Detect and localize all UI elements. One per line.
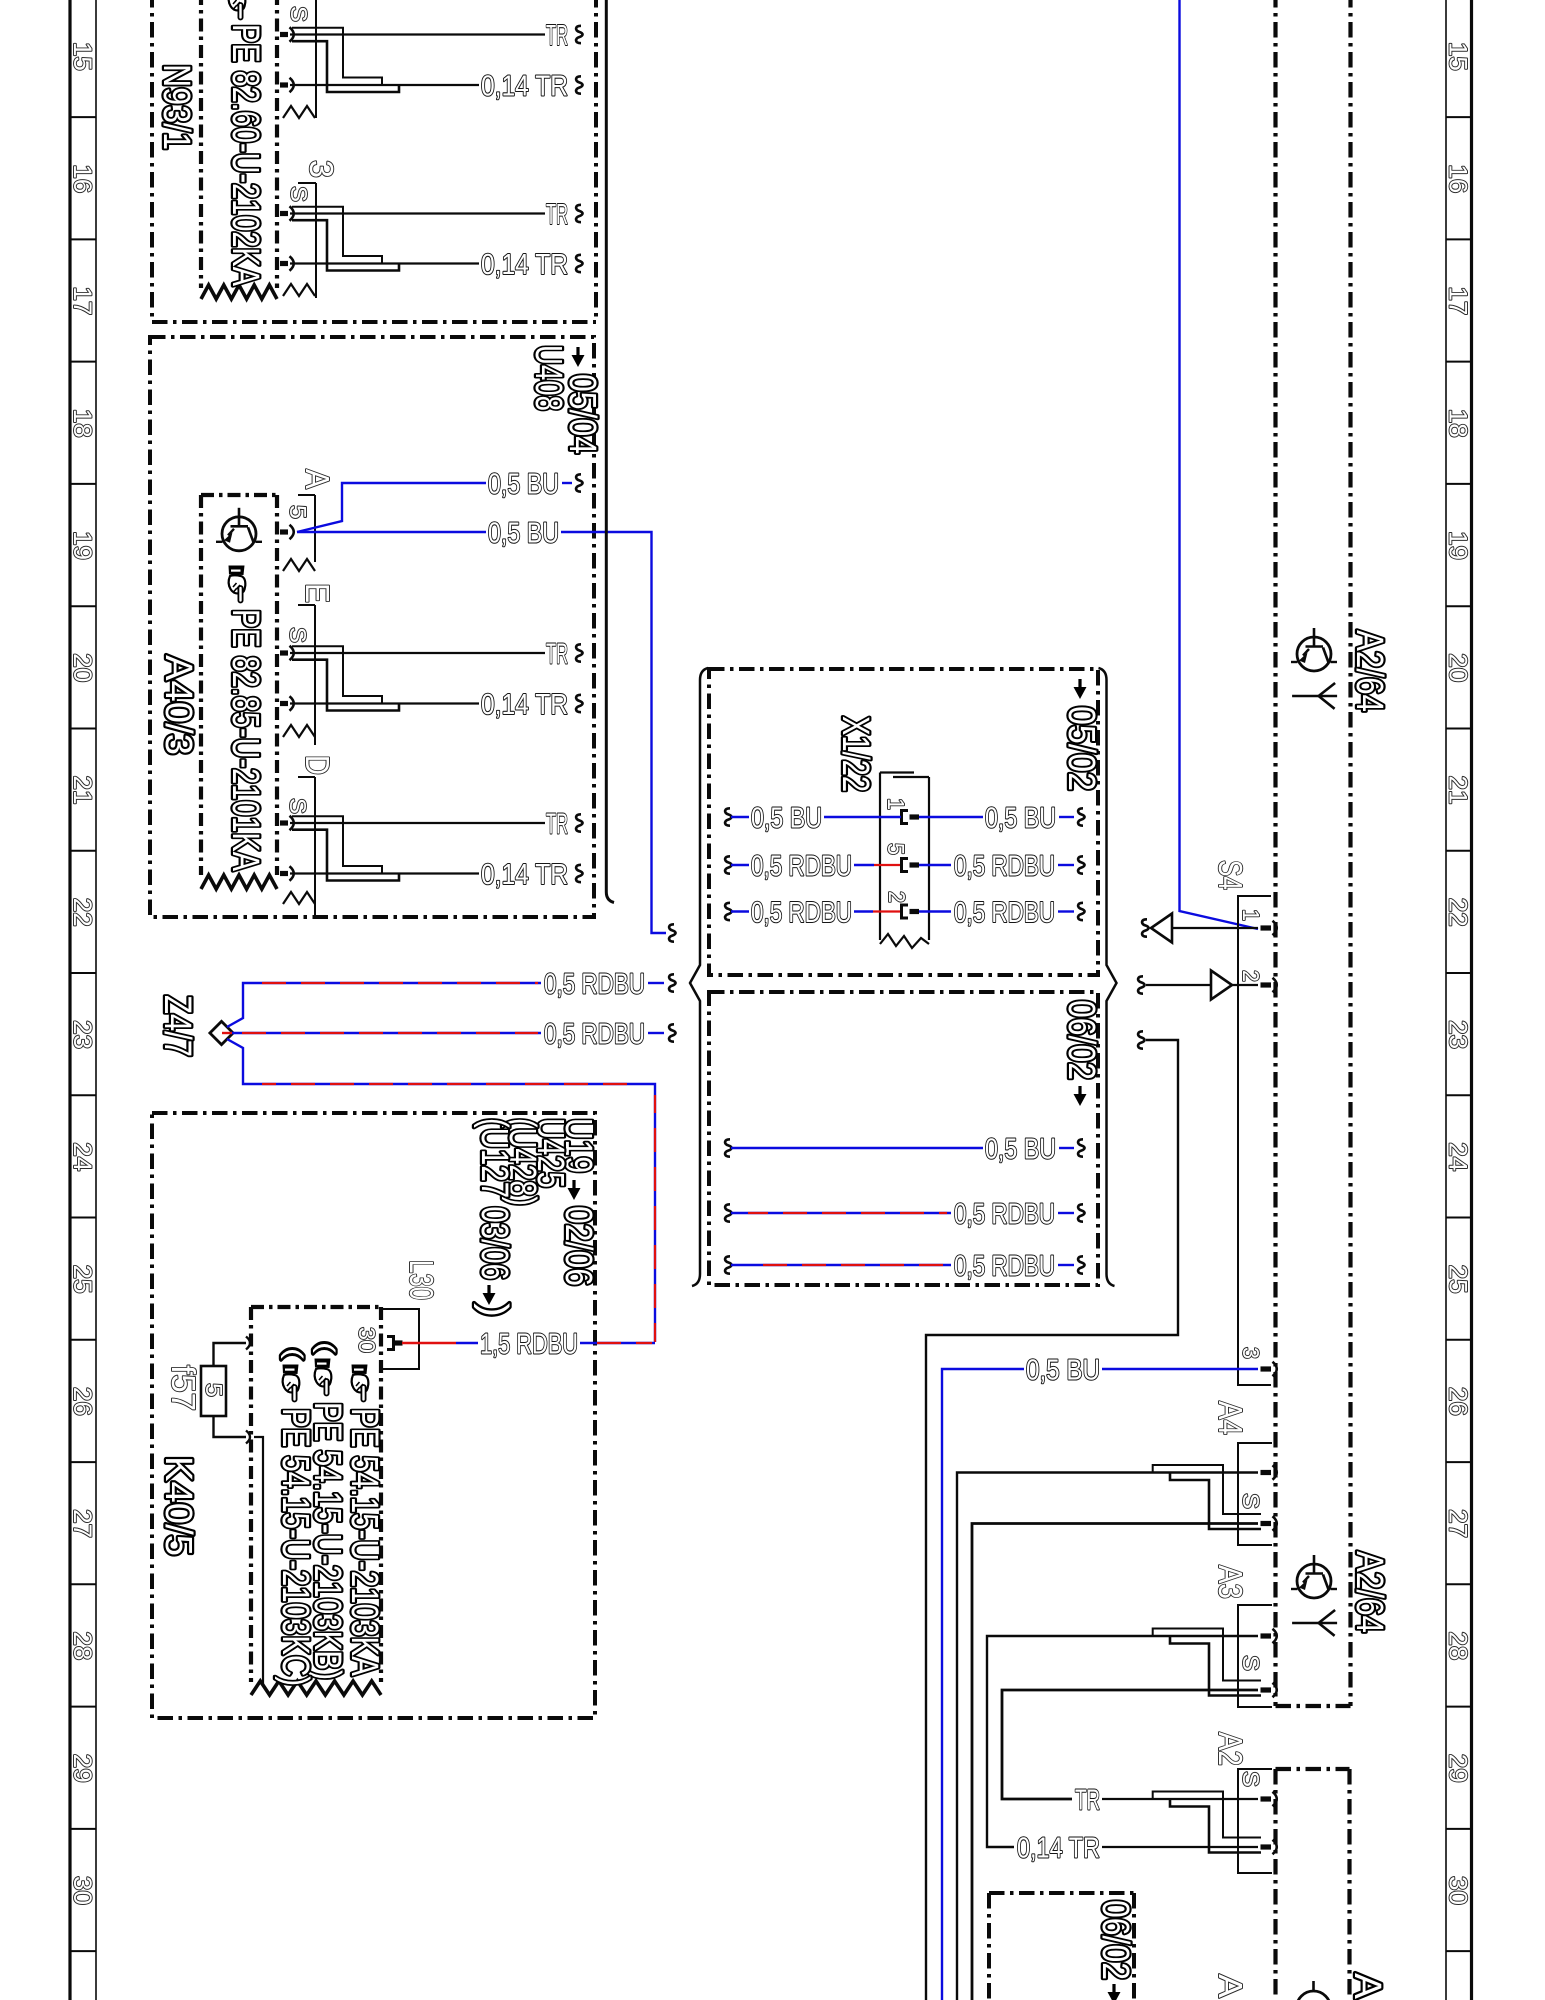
contact at box edge top — [246, 1337, 250, 1350]
contact pin E2 — [280, 696, 294, 710]
connector bracket A2 — [1238, 1769, 1272, 1873]
wire branch down from Z4/7 — [227, 1039, 655, 1342]
svg-text:23: 23 — [68, 1020, 96, 1049]
svg-text:0,5 BU: 0,5 BU — [985, 803, 1056, 835]
wire 0,5 BU left row1 — [731, 816, 749, 818]
wire 1,5 RDBU blue segment — [456, 1342, 478, 1344]
connector bracket line N93/1 group1 — [315, 0, 317, 118]
clock symbol A2/64 upper — [1291, 628, 1337, 671]
connector bracket S4 — [1238, 896, 1271, 1385]
svg-text:20: 20 — [1444, 653, 1472, 682]
wire end hook 0,14 TR E — [576, 695, 582, 712]
hook start row3 06/02 — [725, 1256, 731, 1273]
page ref arrow U127 — [483, 1285, 496, 1305]
wire end hook 0,14 TR g1 — [576, 76, 582, 93]
contact pin A40/3 pin A5 — [280, 525, 294, 539]
svg-text:06/02: 06/02 — [1094, 1900, 1136, 1980]
pin contact A3-1 — [1261, 1629, 1277, 1643]
pin contact 2 X1/22 — [902, 905, 920, 918]
svg-text:0,14 TR: 0,14 TR — [1017, 1833, 1100, 1865]
svg-text:(: ( — [312, 1342, 339, 1353]
tear under connector E pins — [283, 725, 315, 737]
svg-text:TR: TR — [546, 809, 568, 841]
left border ruler column — [68, 0, 71, 2000]
pin contact A4-1 — [1261, 1465, 1277, 1479]
wire 0,5 RDBU 06/02 row2 — [731, 1212, 951, 1214]
wire 0,5 BU left of label and down — [942, 1369, 1024, 2000]
pin contact 5 X1/22 — [902, 859, 920, 872]
contact at box edge bottom — [246, 1431, 250, 1444]
wire to hook row3 06/02 — [1058, 1264, 1074, 1266]
svg-text:21: 21 — [68, 776, 96, 805]
svg-text:15: 15 — [68, 42, 96, 71]
svg-text:3: 3 — [303, 160, 340, 178]
svg-text:28: 28 — [1444, 1631, 1472, 1660]
svg-text:21: 21 — [1444, 776, 1472, 805]
svg-text:1: 1 — [1238, 909, 1264, 921]
wire end hook TR D — [576, 814, 582, 831]
wire 0,5 BU to pin1 — [824, 816, 901, 818]
wire 1,5 RDBU red segment — [402, 1342, 456, 1344]
wire from A3-1 left down right — [987, 1636, 1258, 1847]
svg-text:0,14 TR: 0,14 TR — [481, 859, 568, 891]
svg-text:S: S — [286, 186, 312, 202]
page ref arrow U19 — [568, 1180, 581, 1200]
hook start row2 05/02 — [725, 856, 731, 873]
antenna symbol lower — [1292, 1610, 1337, 1636]
contact pin N93/1 g1 pin1 — [280, 27, 294, 41]
svg-text:15: 15 — [1444, 42, 1472, 71]
contact pin E1 — [280, 646, 294, 660]
svg-text:0,5 RDBU: 0,5 RDBU — [954, 851, 1055, 883]
splice Z4/7 diamond — [210, 1021, 233, 1044]
wire from A4-1 left and down — [957, 1473, 1258, 2000]
wire 0,5 RDBU left row2 — [731, 864, 749, 866]
direction triangle toward hook — [1151, 914, 1172, 943]
wire right of pin5 — [919, 864, 951, 866]
svg-text:24: 24 — [68, 1142, 96, 1171]
svg-text:0,5 RDBU: 0,5 RDBU — [954, 1199, 1055, 1231]
svg-text:A2: A2 — [1212, 1732, 1249, 1766]
svg-text:26: 26 — [1444, 1387, 1472, 1416]
twisted-pair symbol at A4 — [1153, 1465, 1261, 1514]
hook third row — [1138, 1031, 1144, 1048]
tear under connector D pins — [283, 892, 315, 904]
wire 0,5 RDBU 06/02 row3 — [731, 1264, 951, 1266]
svg-text:L30: L30 — [403, 1260, 440, 1300]
wire 0,5 BU lower continuation right and down — [561, 532, 666, 933]
wire to hook row1 06/02 — [1059, 1147, 1074, 1149]
svg-text:U408: U408 — [527, 345, 569, 411]
svg-text:29: 29 — [1444, 1754, 1472, 1783]
hand icon A40/3 — [229, 566, 246, 603]
wire TR from N93/1 g1 pin1 — [290, 33, 545, 35]
svg-text:A40/3: A40/3 — [157, 655, 199, 755]
svg-text:0,14 TR: 0,14 TR — [481, 71, 568, 103]
wire end hook 0,14 TR D — [576, 865, 582, 882]
svg-text:PE 82.60-U-2102KA: PE 82.60-U-2102KA — [224, 24, 266, 286]
svg-text:K40/5: K40/5 — [157, 1456, 199, 1556]
connector bracket E — [298, 604, 315, 606]
svg-text:30: 30 — [354, 1327, 380, 1353]
svg-text:20: 20 — [68, 653, 96, 682]
wire 0,5 BU from S4-3 — [1102, 1368, 1258, 1370]
svg-text:X1/22: X1/22 — [834, 716, 876, 792]
partial clock symbol bottom — [1312, 1981, 1315, 1992]
contact pin N93/1 g1 pin2 — [280, 78, 294, 92]
wire fuse top to pin 30 — [214, 1343, 247, 1366]
connector bracket A3 — [1238, 1605, 1272, 1707]
connector bracket line N93/1 group2 — [298, 182, 316, 184]
hook start row1 06/02 — [725, 1139, 731, 1156]
wire end hook TR g1 — [576, 26, 582, 43]
clock symbol A2/64 lower — [1291, 1555, 1337, 1598]
hook S4-1 — [1142, 919, 1148, 936]
svg-text:0,5 RDBU: 0,5 RDBU — [954, 897, 1055, 929]
svg-text:S: S — [285, 798, 311, 814]
wire 0,14 TR from pin E2 — [290, 702, 479, 704]
svg-text:25: 25 — [1444, 1265, 1472, 1294]
fuse f57 body — [201, 1366, 226, 1416]
radio A2/64 outline box — [1273, 0, 1277, 1706]
svg-text:0,5 RDBU: 0,5 RDBU — [544, 969, 645, 1001]
wire TR from pin E1 — [290, 652, 545, 654]
svg-text:1,5 RDBU: 1,5 RDBU — [480, 1329, 578, 1361]
hand icon N93/1 (cut at page top) — [229, 0, 246, 20]
svg-text:17: 17 — [1444, 286, 1472, 315]
pin contact A2-1 — [1261, 1792, 1277, 1806]
pin contact 1 X1/22 — [902, 811, 920, 824]
svg-text:0,5 BU: 0,5 BU — [488, 518, 559, 550]
svg-text:): ) — [473, 1303, 515, 1317]
pin contact S4-2 — [1261, 978, 1277, 992]
torn bottom of X1/22 body — [880, 934, 929, 948]
torn bottom edge of N93/1 PE box — [201, 285, 277, 299]
torn bottom edge of fuse holder box — [251, 1681, 381, 1695]
svg-text:0,5 RDBU: 0,5 RDBU — [544, 1019, 645, 1051]
svg-text:19: 19 — [68, 531, 96, 560]
twisted-pair symbol N93/1 g2 — [292, 207, 382, 264]
wire fuse bottom into box — [214, 1416, 247, 1437]
svg-text:5: 5 — [285, 505, 311, 519]
svg-text:S: S — [286, 6, 312, 22]
svg-text:18: 18 — [1444, 409, 1472, 438]
svg-text:05/02: 05/02 — [1060, 706, 1102, 791]
svg-text:0,5 BU: 0,5 BU — [488, 469, 559, 501]
hand icon KB column — [315, 1359, 332, 1396]
tear under N93/1 g1 contacts — [283, 106, 315, 118]
wire from A3-2 left down right — [1002, 1690, 1258, 1799]
svg-text:PE 54.15-U-2103KC): PE 54.15-U-2103KC) — [274, 1408, 316, 1686]
wire third row to right and down — [926, 1040, 1178, 2000]
svg-text:29: 29 — [68, 1754, 96, 1783]
pin contact A2-2 — [1261, 1840, 1277, 1854]
svg-text:02/06: 02/06 — [557, 1206, 599, 1286]
pin contact A4-2 — [1261, 1516, 1277, 1530]
svg-text:S4: S4 — [1212, 860, 1249, 890]
svg-text:0,5 BU: 0,5 BU — [985, 1134, 1056, 1166]
wire TR from N93/1 g2 pin1 — [290, 212, 545, 214]
svg-text:E: E — [299, 583, 336, 603]
twisted-pair symbol at A2 — [1153, 1792, 1261, 1838]
connector bracket L30 — [382, 1309, 419, 1369]
svg-text:A: A — [1212, 1974, 1249, 1998]
wire hook to triangle S4-2 — [1146, 984, 1211, 986]
wire 0,5 RDBU left row3 — [731, 910, 749, 912]
twisted-pair symbol D — [292, 816, 382, 873]
direction triangle toward pin — [1211, 971, 1232, 1000]
svg-text:0,5 RDBU: 0,5 RDBU — [751, 851, 852, 883]
antenna symbol upper — [1292, 683, 1337, 709]
connector X1/22 body — [880, 771, 914, 773]
page reference arrow 05/04 — [572, 347, 585, 367]
wire after label branch up — [648, 982, 664, 984]
hook end row2 05/02 — [1078, 856, 1084, 873]
svg-text:(: ( — [280, 1348, 307, 1359]
inner PE reference box of N93/1 — [199, 0, 203, 288]
harness branch line right of N93/1 and A40/3 — [606, 0, 614, 903]
control unit N93/1 outline box — [150, 0, 154, 322]
svg-text:A4: A4 — [1212, 1401, 1249, 1435]
hook start row2 06/02 — [725, 1204, 731, 1221]
connector bracket D — [298, 776, 315, 778]
svg-text:18: 18 — [68, 409, 96, 438]
connector bracket A — [298, 494, 315, 496]
svg-text:06/02: 06/02 — [1060, 1000, 1102, 1080]
control unit A40/3 outline box — [150, 337, 594, 917]
svg-text:28: 28 — [68, 1631, 96, 1660]
wire 0,14 TR from N93/1 g2 pin2 — [290, 262, 479, 264]
hook start row1 05/02 — [725, 808, 731, 825]
svg-text:TR: TR — [546, 199, 568, 231]
svg-text:0,5 RDBU: 0,5 RDBU — [954, 1251, 1055, 1283]
tear under pin A5 — [283, 559, 315, 571]
harness box 06/02 — [709, 992, 1098, 1285]
fuse and relay module K40/5 outline box — [152, 1113, 595, 1718]
hook end row1 05/02 — [1078, 808, 1084, 825]
hook end row1 06/02 — [1078, 1139, 1084, 1156]
svg-text:PE 54.15-U-2103KA: PE 54.15-U-2103KA — [343, 1408, 385, 1677]
page reference arrow after 06/02 — [1074, 1086, 1087, 1106]
svg-text:A: A — [299, 469, 336, 489]
hook end row2 06/02 — [1078, 1204, 1084, 1221]
tear under N93/1 g2 contacts — [283, 284, 315, 296]
contact pin N93/1 g2 pin1 — [280, 206, 294, 220]
svg-text:1: 1 — [883, 798, 909, 810]
hook end row3 06/02 — [1078, 1256, 1084, 1273]
wire end hook TR E — [576, 644, 582, 661]
svg-text:0,5 BU: 0,5 BU — [1026, 1355, 1100, 1387]
twisted-pair symbol N93/1 g1 — [292, 28, 382, 85]
pin contact A3-2 — [1261, 1683, 1277, 1697]
svg-text:5: 5 — [201, 1383, 227, 1397]
svg-text:A2/64: A2/64 — [1348, 1551, 1390, 1633]
svg-text:0,14 TR: 0,14 TR — [481, 249, 568, 281]
svg-text:f57: f57 — [165, 1365, 202, 1411]
wire branch up from Z4/7 — [227, 983, 541, 1027]
svg-text:23: 23 — [1444, 1020, 1472, 1049]
svg-text:26: 26 — [68, 1387, 96, 1416]
hook end row3 05/02 — [1078, 903, 1084, 920]
wire TR from pin D1 — [290, 822, 545, 824]
wire after label branch mid — [648, 1032, 664, 1034]
wire from A4-2 left and down — [972, 1524, 1258, 2000]
hook end branch up — [669, 974, 675, 991]
svg-text:16: 16 — [1444, 164, 1472, 193]
component box below A2/64 — [1276, 1767, 1350, 1771]
wire stub before hook 0,5 BU upper — [562, 482, 572, 484]
wire from S4-1 to triangle — [1172, 927, 1258, 929]
pin contact S4-1 — [1261, 921, 1277, 935]
svg-text:Z4/7: Z4/7 — [156, 995, 198, 1057]
svg-text:24: 24 — [1444, 1142, 1472, 1171]
svg-text:A2/64: A2/64 — [1348, 630, 1390, 712]
wire 0,5 BU lower from pin A5 — [297, 531, 486, 533]
twisted-pair symbol E — [292, 646, 382, 703]
svg-text:S: S — [1238, 1493, 1264, 1509]
hook end branch mid — [669, 1024, 675, 1041]
wire 0,5 BU right of pin1 — [919, 816, 983, 818]
svg-text:5: 5 — [883, 843, 909, 855]
wire label to A2-2 — [1102, 1846, 1258, 1848]
inner fuse holder box of K40/5 — [251, 1305, 381, 1309]
wire end hook TR g2 — [576, 205, 582, 222]
hook S4-2 — [1138, 976, 1144, 993]
svg-text:S: S — [1238, 1771, 1264, 1787]
inner PE reference box of A40/3 — [201, 493, 277, 497]
wire 0,5 BU 06/02 — [731, 1147, 983, 1149]
harness break line right with chevron — [1099, 668, 1117, 1286]
svg-text:16: 16 — [68, 164, 96, 193]
wire 1,5 RDBU right of label — [580, 1342, 655, 1344]
svg-text:A: A — [1346, 1973, 1388, 2000]
svg-text:17: 17 — [68, 286, 96, 315]
harness box 05/02 — [709, 669, 1098, 975]
page reference arrow 05/02 — [1074, 679, 1087, 699]
svg-text:0,5 BU: 0,5 BU — [751, 803, 822, 835]
svg-text:0,5 RDBU: 0,5 RDBU — [751, 897, 852, 929]
wire right of pin2 — [919, 910, 951, 912]
wire end hook 0,14 TR g2 — [576, 255, 582, 272]
torn bottom edge of A40/3 PE box — [201, 875, 277, 889]
wire 0,5 BU from page top — [1180, 0, 1259, 929]
page reference arrow 06/02 bottom — [1108, 1984, 1121, 2000]
wire 0,5 BU upper from pin A5 — [297, 483, 486, 532]
svg-text:TR: TR — [1075, 1785, 1100, 1817]
svg-text:TR: TR — [546, 20, 568, 52]
harness break line left with chevron — [690, 668, 708, 1286]
lamp symbol in A40/3 — [216, 508, 262, 551]
svg-text:22: 22 — [68, 898, 96, 927]
svg-text:N93/1: N93/1 — [155, 64, 197, 150]
wire branch mid from Z4/7 — [230, 1032, 541, 1034]
contact pin D1 — [280, 816, 294, 830]
svg-text:25: 25 — [68, 1265, 96, 1294]
svg-text:S: S — [1238, 1655, 1264, 1671]
hand icon KA column — [352, 1365, 369, 1402]
wire end hook 0,5 BU upper — [576, 474, 582, 491]
svg-text:27: 27 — [1444, 1509, 1472, 1538]
contact pin D2 — [280, 866, 294, 880]
hand icon KC column — [283, 1365, 300, 1402]
wire 0,5 RDBU to hook row2 — [1058, 864, 1074, 866]
hook start row3 05/02 — [725, 903, 731, 920]
svg-text:A3: A3 — [1212, 1565, 1249, 1599]
wire RDBU mid row3 red part — [873, 910, 900, 912]
svg-text:S: S — [285, 627, 311, 643]
svg-text:(U127 03/06: (U127 03/06 — [473, 1118, 515, 1280]
wire RDBU mid row2 blue part — [854, 864, 874, 866]
wire RDBU mid row2 red part — [874, 864, 900, 866]
terminal pin 30 — [387, 1337, 403, 1350]
svg-text:TR: TR — [546, 639, 568, 671]
wire label TR to A2-1 — [1102, 1798, 1258, 1800]
wire 0,5 RDBU to hook row3 — [1058, 910, 1074, 912]
wire 0,14 TR from N93/1 g1 pin2 — [290, 84, 479, 86]
svg-text:30: 30 — [1444, 1876, 1472, 1905]
twisted-pair symbol at A3 — [1153, 1629, 1261, 1681]
pin contact S4-3 — [1261, 1362, 1277, 1376]
contact pin N93/1 g2 pin2 — [280, 256, 294, 270]
wire inside fuse holder box down — [254, 1437, 263, 1684]
svg-text:3: 3 — [1238, 1347, 1264, 1359]
wire triangle to S4-2 — [1232, 984, 1258, 986]
connector bracket A4 — [1238, 1443, 1272, 1545]
wire 0,5 BU to hook row1 — [1059, 816, 1074, 818]
svg-text:PE 82.85-U-2101KA: PE 82.85-U-2101KA — [224, 609, 266, 871]
svg-text:2: 2 — [1238, 970, 1264, 982]
svg-text:2: 2 — [884, 891, 910, 903]
svg-text:0,14 TR: 0,14 TR — [481, 689, 568, 721]
harness box 06/02 bottom — [989, 1891, 1134, 1895]
wire to hook row2 06/02 — [1058, 1212, 1074, 1214]
svg-text:30: 30 — [68, 1876, 96, 1905]
wire 0,14 TR from pin D2 — [290, 872, 479, 874]
svg-text:19: 19 — [1444, 531, 1472, 560]
svg-text:27: 27 — [68, 1509, 96, 1538]
right border ruler column — [1470, 0, 1473, 2000]
wire end hook of 0,5 BU at bottom — [669, 924, 675, 941]
svg-text:D: D — [299, 755, 336, 775]
wire RDBU mid row3 blue part — [854, 910, 873, 912]
svg-text:22: 22 — [1444, 898, 1472, 927]
